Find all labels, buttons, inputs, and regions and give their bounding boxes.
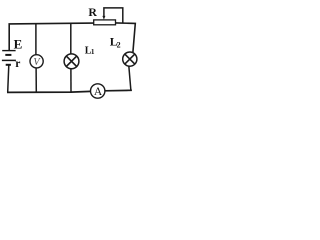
svg-text:A: A (94, 86, 103, 98)
svg-text:1: 1 (91, 48, 95, 56)
svg-text:2: 2 (117, 41, 121, 50)
svg-text:R: R (88, 5, 97, 19)
svg-text:r: r (15, 58, 20, 70)
svg-text:E: E (14, 36, 23, 51)
